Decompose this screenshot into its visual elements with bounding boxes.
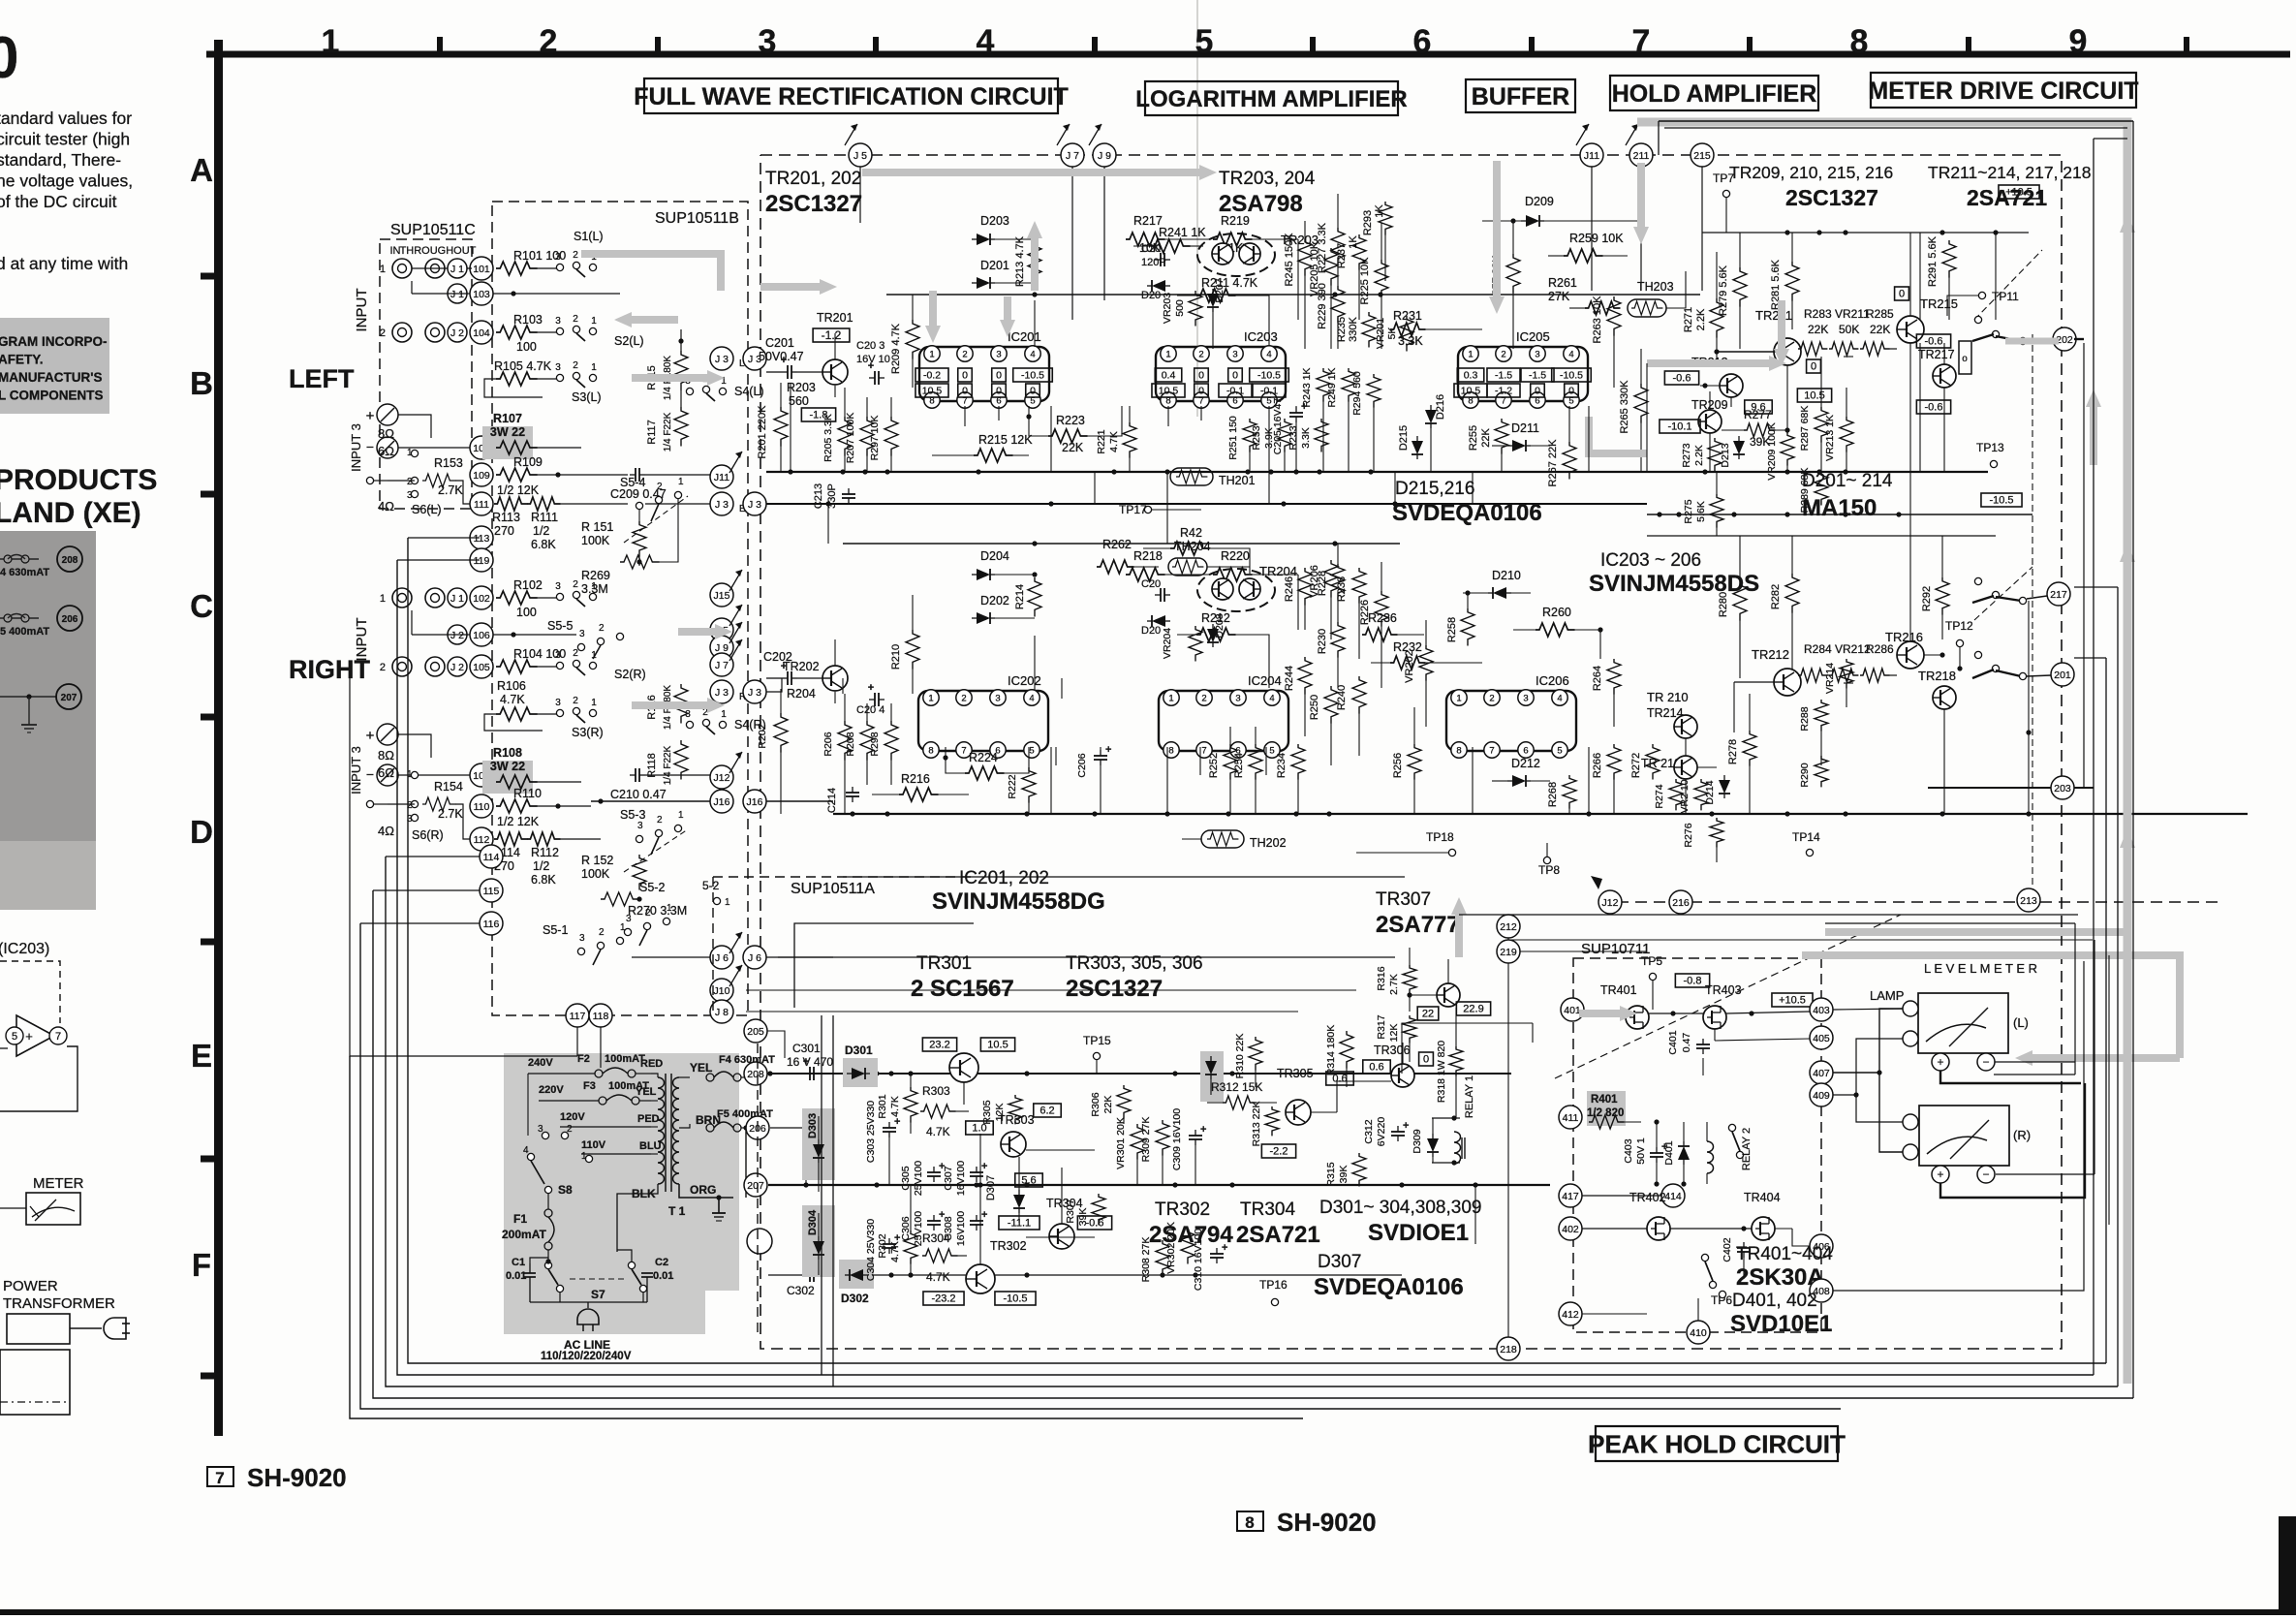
svg-text:3: 3	[995, 694, 1000, 704]
varistor VR201 vert	[1375, 316, 1413, 351]
svg-text:2: 2	[645, 908, 651, 919]
junction J16 a	[710, 790, 733, 813]
ruler left bar	[214, 40, 223, 1436]
svg-text:1: 1	[1168, 694, 1173, 704]
svg-text:VR2 10: VR2 10	[1679, 779, 1691, 813]
transistor TR213	[1664, 356, 1743, 397]
resistor R260	[1513, 606, 1603, 659]
ruler tick 8	[1966, 37, 1971, 51]
resistor R209 vert	[890, 295, 919, 388]
svg-text:3: 3	[626, 914, 632, 924]
svg-text:IC206: IC206	[1536, 673, 1569, 688]
junction J3 E a	[710, 492, 733, 515]
svg-text:0: 0	[996, 385, 1002, 396]
svg-text:R215 12K: R215 12K	[978, 433, 1033, 447]
dashed diagonal linkage	[1555, 915, 1901, 1078]
wire return vert right b	[2094, 139, 2127, 1375]
resistor R236	[1362, 611, 1424, 641]
junction J9	[710, 622, 742, 659]
transistor TR215	[1895, 287, 1958, 349]
bus row2	[833, 811, 2248, 816]
capacitor C210	[591, 768, 710, 801]
svg-text:D304: D304	[807, 1209, 819, 1235]
svg-text:A: A	[190, 152, 213, 188]
wire 115 run	[373, 879, 503, 902]
svg-text:10.5: 10.5	[987, 1040, 1008, 1051]
testpoint TP5	[1641, 954, 1662, 1010]
svg-text:100mAT: 100mAT	[605, 1053, 645, 1065]
svg-text:R273: R273	[1681, 443, 1692, 467]
node 409	[1810, 1083, 1833, 1106]
svg-text:D20: D20	[1141, 625, 1161, 637]
wire vertical x816 y395	[790, 383, 791, 472]
ruler number 3	[759, 23, 777, 60]
op-amp IC203	[1152, 329, 1288, 408]
svg-text:C20 4: C20 4	[856, 704, 884, 716]
capacitor C205 vert	[1272, 398, 1307, 472]
svg-text:5: 5	[1269, 746, 1274, 757]
wire vertical x1085 y419	[1050, 406, 1052, 472]
resistor R117 vert	[646, 407, 688, 452]
switch S5-5	[547, 619, 624, 659]
row tick 1	[201, 273, 218, 280]
wire J16 row	[591, 798, 833, 803]
node 215 top	[1691, 143, 1714, 167]
resistor R298 vert	[869, 703, 898, 785]
vbox TR211 0	[1807, 359, 1821, 373]
resistor R204 label	[787, 687, 816, 701]
wire 215 drop	[1701, 167, 1703, 291]
resistor R206 vert	[822, 694, 852, 814]
title buffer	[1466, 79, 1575, 112]
resistor R106	[484, 679, 558, 731]
svg-text:R117: R117	[646, 420, 658, 444]
testpoint TP14	[1792, 830, 1820, 857]
svg-text:3W 22: 3W 22	[490, 425, 525, 439]
svg-text:25V100: 25V100	[913, 1161, 924, 1196]
svg-text:22K: 22K	[1480, 428, 1492, 448]
svg-text:D214: D214	[1704, 780, 1716, 804]
wire tr217 down	[1943, 709, 1945, 814]
label 4ohm r	[378, 824, 394, 838]
svg-text:TR305: TR305	[1277, 1067, 1314, 1080]
svg-text:R256: R256	[1392, 753, 1404, 778]
resistor R250 vert	[1309, 686, 1338, 765]
svg-text:SUP10511B: SUP10511B	[655, 210, 739, 227]
label 6ohm r	[378, 765, 394, 780]
node 216 mid	[1669, 890, 1692, 914]
gray trace S4R	[632, 698, 725, 713]
svg-text:0.47: 0.47	[1681, 1033, 1692, 1053]
resistor R154	[407, 780, 463, 825]
svg-text:R204: R204	[787, 687, 816, 701]
left margin PRODUCTS	[0, 464, 157, 496]
meter R box	[1919, 1106, 2009, 1166]
resistor R219	[1213, 214, 1298, 320]
svg-text:(IC203): (IC203)	[0, 941, 49, 957]
ruler number 5	[1195, 23, 1214, 60]
svg-text:+: +	[868, 682, 874, 694]
svg-text:R237: R237	[1336, 243, 1348, 268]
sheet label 7 box	[207, 1467, 233, 1487]
label (L)	[2013, 1015, 2029, 1030]
svg-text:-1.5: -1.5	[1495, 369, 1512, 381]
capacitor C312 vert	[1363, 1117, 1409, 1185]
wire 212 219 drop	[1507, 938, 1509, 1337]
svg-text:VR201: VR201	[1375, 318, 1386, 349]
label SVDEQA0106 b	[1314, 1274, 1464, 1300]
svg-text:0: 0	[1423, 1054, 1429, 1066]
resistor R208 vert	[845, 703, 874, 785]
svg-text:2SA721: 2SA721	[1236, 1222, 1320, 1248]
svg-text:BLK: BLK	[632, 1187, 656, 1200]
jack r-input1 OUT	[425, 588, 445, 607]
label LEFT	[289, 364, 355, 393]
svg-text:6Ω: 6Ω	[378, 765, 394, 780]
vbox TR201 e	[801, 408, 835, 421]
wire v 1905 675	[1845, 233, 1846, 320]
resistor R221 vert	[1096, 406, 1136, 472]
svg-text:R222: R222	[1007, 774, 1018, 798]
svg-text:5: 5	[1557, 746, 1562, 757]
gray trace ic201 pin2	[1000, 296, 1015, 337]
svg-text:0: 0	[962, 385, 968, 396]
resistor R237 vert	[1336, 234, 1366, 320]
svg-text:TR218: TR218	[1918, 669, 1956, 683]
svg-text:C2: C2	[655, 1257, 668, 1268]
resistor R277	[1722, 408, 1787, 449]
svg-text:D209: D209	[1525, 195, 1554, 208]
svg-text:TRANSFORMER: TRANSFORMER	[3, 1295, 115, 1312]
node 203 right	[1928, 776, 2094, 799]
svg-text:J 1: J 1	[450, 289, 464, 300]
row letter A	[190, 152, 213, 188]
diode D303 vert	[807, 1113, 824, 1192]
svg-text:TP18: TP18	[1426, 830, 1454, 844]
varistor VR211	[1829, 307, 1870, 357]
resistor R266 vert	[1592, 744, 1621, 814]
svg-text:116: 116	[483, 919, 500, 930]
label TR303 305 306	[1066, 953, 1203, 974]
node 110	[470, 794, 493, 818]
svg-text:LEFT: LEFT	[289, 364, 355, 393]
svg-text:0: 0	[1899, 289, 1905, 300]
svg-text:4: 4	[1557, 694, 1562, 704]
wire long 905	[843, 876, 1405, 878]
svg-text:208: 208	[747, 1069, 764, 1080]
jack input2 OUT	[425, 323, 445, 342]
wire frame TR301 labels	[794, 923, 1337, 1008]
svg-text:-0.1: -0.1	[1260, 385, 1278, 396]
svg-text:50V 1: 50V 1	[1635, 1137, 1647, 1165]
wire tr212 base	[1697, 682, 1734, 732]
svg-text:SH-9020: SH-9020	[247, 1463, 347, 1492]
svg-text:S6(R): S6(R)	[412, 828, 444, 842]
transistor TR402	[1629, 1191, 1670, 1240]
diode D207 vert	[1207, 278, 1226, 312]
svg-text:1: 1	[322, 23, 340, 60]
varistor VR214 vert	[1824, 659, 1853, 707]
svg-text:C301: C301	[792, 1042, 821, 1055]
svg-text:4: 4	[1266, 350, 1271, 360]
svg-text:J 2: J 2	[450, 662, 464, 673]
svg-text:4Ω: 4Ω	[378, 824, 394, 838]
label 2SA721 c	[1236, 1222, 1320, 1248]
transistor TR404	[1744, 1191, 1781, 1240]
svg-text:J 2: J 2	[450, 630, 464, 641]
svg-text:TR401~404: TR401~404	[1736, 1244, 1833, 1264]
node 113	[470, 526, 493, 549]
svg-text:IC203 ~ 206: IC203 ~ 206	[1600, 550, 1701, 571]
wire meter feeds	[1825, 923, 2094, 1174]
wire sup10711 bottom	[1582, 1298, 1698, 1321]
svg-text:D303: D303	[807, 1113, 819, 1138]
svg-text:50K: 50K	[1839, 323, 1859, 336]
wire v 1068 360	[1034, 300, 1036, 436]
svg-text:VR213 1K: VR213 1K	[1824, 415, 1836, 461]
svg-text:1: 1	[581, 1151, 587, 1162]
resistor R273 vert	[1681, 433, 1722, 472]
svg-text:SVDIOE1: SVDIOE1	[1368, 1220, 1469, 1246]
svg-text:F1: F1	[513, 1212, 527, 1226]
junction J2 rb	[448, 625, 467, 644]
gray trace bus 487 seg	[1027, 221, 1042, 291]
left margin photo ground	[21, 725, 37, 732]
wire 217 bus	[2026, 601, 2031, 814]
svg-text:R241 1K: R241 1K	[1159, 226, 1206, 239]
svg-text:R258: R258	[1446, 617, 1458, 642]
svg-text:R107: R107	[493, 412, 522, 425]
svg-text:3: 3	[1523, 694, 1528, 704]
label TR301	[916, 953, 972, 974]
diode D212	[1492, 757, 1550, 787]
svg-text:0: 0	[1198, 385, 1204, 396]
svg-text:TP7: TP7	[1713, 171, 1734, 185]
svg-text:POWER: POWER	[3, 1278, 58, 1294]
svg-text:VR209 100K: VR209 100K	[1766, 422, 1778, 481]
svg-text:PED: PED	[637, 1113, 660, 1125]
svg-text:+: +	[868, 360, 874, 372]
svg-text:C20: C20	[1141, 578, 1161, 590]
wire tr215 down	[1909, 343, 1911, 641]
wire r row1b	[412, 610, 576, 638]
svg-text:1: 1	[591, 316, 597, 327]
svg-text:2: 2	[657, 815, 663, 826]
svg-text:o: o	[1962, 354, 1968, 364]
svg-text:-10.5: -10.5	[1989, 495, 2013, 507]
svg-text:219: 219	[1500, 947, 1517, 958]
gray trace S1L	[581, 254, 721, 291]
svg-text:R266: R266	[1592, 753, 1603, 778]
svg-text:AFETY.: AFETY.	[0, 353, 44, 367]
wire v 1068 640	[1034, 636, 1036, 690]
label 2SA794	[1149, 1222, 1233, 1248]
svg-text:R313 22K: R313 22K	[1251, 1102, 1262, 1147]
diode D210	[1463, 569, 1531, 599]
svg-text:R238: R238	[1336, 576, 1348, 602]
svg-text:D203: D203	[980, 214, 1009, 228]
transistor TR307 circle	[1407, 959, 1490, 1020]
svg-text:MANUFACTUR'S: MANUFACTUR'S	[0, 370, 102, 385]
resistor R262	[1097, 538, 1159, 574]
gray trace d209	[1633, 163, 1649, 244]
wire rail 206	[770, 1128, 806, 1185]
wire v 2007 seg	[1943, 343, 1945, 472]
meter R lamp terms	[1903, 1114, 1918, 1160]
transistor TR304	[999, 1197, 1112, 1249]
capacitor C201	[759, 336, 804, 379]
junction J3 R a	[710, 680, 733, 703]
resistor R218 b	[1126, 549, 1209, 581]
transistor TR209	[1660, 398, 1728, 433]
svg-text:J12: J12	[1602, 897, 1619, 909]
svg-text:TH201: TH201	[1219, 474, 1256, 487]
svg-text:R259 10K: R259 10K	[1569, 232, 1624, 245]
node 412	[1559, 1302, 1582, 1325]
svg-text:D302: D302	[841, 1292, 869, 1305]
left margin paragraph line 1	[0, 109, 132, 128]
svg-text:J16: J16	[747, 796, 763, 808]
capacitor C307 vert	[943, 1159, 987, 1196]
gray trace J9 drop	[1489, 161, 1505, 314]
meter L minus	[1977, 1053, 1995, 1071]
svg-text:INPUT 3: INPUT 3	[349, 423, 363, 472]
svg-text:TR204: TR204	[1259, 564, 1297, 578]
dashed line mid row	[1598, 901, 2218, 903]
node 408	[1810, 1279, 1833, 1302]
transformer T1 core	[666, 1074, 671, 1192]
capacitor C308 vert	[943, 1185, 987, 1275]
label RIGHT	[289, 655, 371, 684]
left margin note line 4	[0, 389, 104, 403]
svg-text:3: 3	[759, 23, 777, 60]
resistor R401	[1587, 1094, 1641, 1129]
svg-text:1: 1	[678, 477, 684, 487]
svg-text:R42: R42	[1180, 526, 1202, 540]
node 108	[470, 763, 493, 787]
svg-text:100: 100	[516, 606, 537, 619]
op-amp IC201	[915, 329, 1052, 408]
svg-text:R314 180K: R314 180K	[1325, 1025, 1337, 1076]
node 414	[1661, 1184, 1685, 1207]
svg-text:D213: D213	[1720, 443, 1731, 467]
wire 409 run	[1833, 1094, 1846, 1096]
page fold line	[1196, 0, 1198, 417]
left margin op-amp pin 5	[6, 1027, 23, 1044]
svg-text:C304 25V330: C304 25V330	[865, 1219, 877, 1281]
svg-text:6: 6	[1523, 746, 1528, 757]
svg-text:8: 8	[1456, 746, 1461, 757]
switch S1(R) terminals	[555, 579, 597, 607]
svg-text:2: 2	[1489, 694, 1494, 704]
left margin gray note box	[0, 318, 109, 414]
svg-text:2: 2	[540, 23, 558, 60]
dashed diagonal top right	[1974, 250, 2042, 320]
wire right col down c	[868, 1015, 870, 1398]
diode D205	[1141, 280, 1170, 301]
svg-text:27K: 27K	[1548, 290, 1570, 303]
svg-text:3: 3	[579, 629, 585, 639]
svg-text:SVDEQA0106: SVDEQA0106	[1314, 1274, 1464, 1300]
wire return bundle 1	[408, 538, 2106, 1363]
svg-text:RELAY 2: RELAY 2	[1741, 1128, 1753, 1170]
svg-text:R401: R401	[1591, 1094, 1618, 1106]
wire vertical x1700 y375	[1646, 363, 1648, 472]
svg-text:105: 105	[473, 662, 490, 673]
svg-text:22K: 22K	[1870, 323, 1890, 336]
svg-text:8: 8	[1168, 746, 1173, 757]
left margin note line 3	[0, 370, 102, 385]
op-amp IC204	[1159, 673, 1288, 758]
junction J6 a	[710, 932, 742, 969]
label IN	[390, 245, 401, 257]
svg-text:2 SC1567: 2 SC1567	[911, 976, 1014, 1002]
svg-text:−: −	[366, 439, 374, 454]
row letter F	[192, 1247, 211, 1283]
svg-text:120V: 120V	[560, 1111, 585, 1123]
diode D304 vert	[807, 1209, 824, 1275]
svg-text:100K: 100K	[581, 867, 610, 881]
wire 219 branch	[1520, 911, 1647, 951]
svg-text:C303 25V330: C303 25V330	[865, 1101, 877, 1163]
svg-text:103: 103	[473, 289, 490, 300]
svg-text:F4 630mAT: F4 630mAT	[719, 1054, 775, 1066]
svg-text:D201: D201	[980, 259, 1009, 272]
label THROUGHOUT	[400, 245, 477, 257]
svg-text:circuit tester (high: circuit tester (high	[0, 130, 130, 149]
svg-text:414: 414	[1664, 1191, 1682, 1202]
svg-text:560: 560	[789, 394, 809, 408]
dashed box SUP10711	[1573, 941, 1821, 1332]
transistor TR210	[1641, 756, 1697, 779]
svg-text:4: 4	[523, 1145, 529, 1156]
svg-text:S3(R): S3(R)	[572, 726, 604, 739]
left margin photo fuse 206	[0, 606, 82, 631]
svg-text:22K: 22K	[1808, 323, 1828, 336]
svg-text:2: 2	[407, 477, 413, 487]
svg-text:IC205: IC205	[1516, 329, 1550, 344]
varistor VR212	[1829, 642, 1871, 683]
resistor R245 vert	[1284, 221, 1312, 349]
svg-text:J15: J15	[714, 590, 730, 602]
resistor R291 vert	[1927, 235, 1956, 320]
capacitor C401	[1667, 1013, 1710, 1075]
svg-text:C310 16V100: C310 16V100	[1193, 1229, 1204, 1291]
gray trace S2L	[614, 312, 678, 327]
junction J11 top	[1576, 124, 1603, 167]
diode D202	[972, 594, 1035, 624]
transistor TR303	[998, 1104, 1061, 1187]
wire rail 207	[768, 1182, 1550, 1187]
svg-text:S5-5: S5-5	[547, 619, 573, 633]
svg-text:T 1: T 1	[668, 1204, 686, 1218]
svg-text:R206: R206	[822, 732, 834, 756]
svg-text:8: 8	[1850, 23, 1869, 60]
resistor R220	[1213, 549, 1298, 630]
diode D213 vert	[1720, 436, 1745, 472]
svg-text:AC LINE: AC LINE	[564, 1338, 610, 1352]
svg-text:R260: R260	[1542, 606, 1571, 619]
testpoint TP6	[1711, 1291, 1732, 1307]
wire ic206 pins	[1454, 406, 1553, 446]
vbox TR215 -0.6	[1916, 334, 1950, 348]
svg-text:TR201: TR201	[817, 311, 853, 325]
diode D203	[972, 214, 1038, 245]
svg-text:TR203, 204: TR203, 204	[1219, 169, 1316, 189]
shade D301	[843, 1058, 878, 1087]
svg-text:R213 4.7K: R213 4.7K	[1014, 235, 1026, 287]
label D201-214	[1802, 471, 1893, 491]
